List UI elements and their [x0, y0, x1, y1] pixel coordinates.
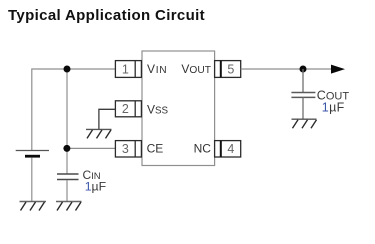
ground (CIN): [56, 202, 82, 211]
svg-text:VIN: VIN: [147, 62, 167, 76]
wire: CE to node B: [67, 147, 115, 149]
capacitor CIN: [57, 174, 79, 180]
wire: VIN top rail (battery to pin 1): [32, 69, 116, 151]
junction node A (VIN/CIN): [64, 66, 71, 73]
pin 4 box: [215, 141, 241, 157]
svg-text:VOUT: VOUT: [181, 62, 211, 76]
pin 5 box: [215, 61, 241, 78]
wire: VSS stub to ground: [99, 109, 116, 129]
ground (battery): [20, 202, 47, 211]
output arrow: [331, 65, 345, 74]
svg-text:4: 4: [227, 142, 234, 156]
svg-text:1µF: 1µF: [322, 101, 345, 115]
wire: CIN to ground: [66, 180, 68, 202]
pin 3 box: [115, 141, 141, 157]
wire: battery to ground: [31, 158, 33, 202]
pin 1 box: [115, 61, 141, 78]
ground (COUT): [292, 119, 317, 128]
svg-text:1: 1: [122, 62, 129, 76]
svg-text:NC: NC: [194, 141, 212, 155]
IC U1 body: [142, 51, 215, 166]
svg-text:3: 3: [122, 142, 129, 156]
wire: CIN branch vertical (node A down to CIN): [66, 69, 68, 174]
pin 2 box: [115, 101, 141, 117]
ground (VSS): [86, 129, 112, 138]
svg-text:1µF: 1µF: [85, 180, 107, 194]
junction node C (VOUT/COUT): [300, 66, 307, 73]
wire: VOUT rail (pin 5 to output arrow): [241, 68, 332, 70]
battery B1: [16, 151, 49, 158]
capacitor COUT: [291, 93, 315, 98]
svg-text:VSS: VSS: [147, 103, 169, 117]
svg-text:5: 5: [227, 62, 234, 76]
svg-text:2: 2: [122, 102, 129, 116]
wire: node C down to COUT: [302, 69, 304, 93]
wire: COUT to ground: [302, 97, 304, 119]
junction node B (CE/CIN): [63, 145, 70, 152]
svg-text:CE: CE: [147, 141, 164, 155]
